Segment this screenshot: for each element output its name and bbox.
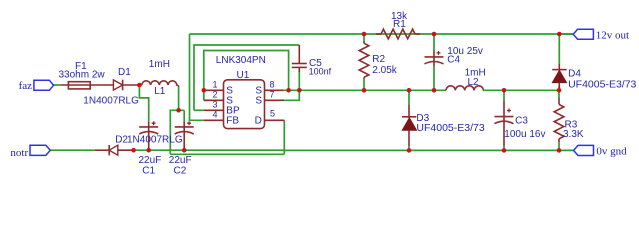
node: R3 bottom on bottom rail — [557, 148, 562, 153]
diode D1 (1N4007RLG) — [113, 80, 122, 90]
svg-text:faz: faz — [19, 80, 33, 92]
wire: C3 top stub — [503, 90, 505, 100]
svg-text:R2: R2 — [372, 54, 385, 65]
node: C3 bottom on bottom rail — [502, 148, 507, 153]
svg-text:1: 1 — [213, 80, 218, 90]
svg-text:33ohm 2w: 33ohm 2w — [59, 70, 106, 81]
wire: pin2 stub link — [204, 99, 208, 101]
wire: D4 bottom / R3 top joint — [558, 86, 560, 98]
pin 7 stub — [265, 99, 285, 101]
node: R2 bottom on source rail — [362, 88, 367, 93]
svg-text:D1: D1 — [118, 67, 131, 78]
wire: C4 top stub — [433, 34, 435, 51]
wire: mid source rail — [284, 89, 447, 91]
svg-text:C3: C3 — [515, 115, 528, 126]
svg-text:7: 7 — [270, 90, 275, 100]
wire: D3 top stub — [408, 90, 410, 105]
node: C4 bottom on source rail — [432, 88, 437, 93]
svg-text:R1: R1 — [393, 19, 406, 30]
connector notr — [30, 145, 50, 155]
wire: D3 bottom stub — [408, 146, 410, 150]
wire: faz input stub — [54, 84, 62, 86]
svg-text:U1: U1 — [237, 70, 250, 81]
capacitor C3 100u 16v — [503, 100, 505, 146]
capacitor C5 100nf — [298, 45, 300, 64]
wire: 12v out stub — [559, 33, 573, 35]
node: source loop right — [286, 88, 291, 93]
svg-text:5: 5 — [270, 109, 275, 119]
pin 2 stub — [204, 99, 224, 101]
op IC U1 LNK304PN body — [224, 80, 265, 129]
pin 4 stub — [204, 119, 224, 121]
node: C3 top on output rail — [502, 88, 507, 93]
fuse F1 body — [61, 84, 113, 86]
svg-text:2: 2 — [213, 90, 218, 100]
wire: drain lower horizontal — [170, 153, 284, 155]
node: pin 1 source tie — [202, 88, 207, 93]
wire: mid rail after L2 — [483, 89, 559, 91]
pin 8 stub — [265, 89, 284, 91]
node: C2 bottom on bottom rail — [182, 148, 187, 153]
svg-text:3: 3 — [213, 100, 218, 110]
wire: R3 bottom stub — [558, 142, 560, 150]
wire: source loop (rect 3) over IC — [204, 51, 289, 101]
node: D1-L1 junction — [137, 83, 142, 88]
wire: top FB rail — [190, 33, 574, 35]
svg-text:1N4007RLG: 1N4007RLG — [127, 135, 183, 146]
svg-text:1mH: 1mH — [149, 59, 170, 70]
pin 3 stub — [204, 109, 224, 111]
wire: FB rail left vertical down to pin 4 — [190, 34, 204, 120]
node: D3 top on source rail — [407, 88, 412, 93]
svg-text:C1: C1 — [142, 166, 155, 177]
svg-text:2.05k: 2.05k — [372, 65, 397, 76]
svg-text:100nf: 100nf — [309, 67, 332, 77]
svg-text:1N4007RLG: 1N4007RLG — [83, 95, 139, 106]
connector 0v gnd — [574, 145, 594, 155]
pin 5 stub — [265, 119, 285, 121]
svg-text:22uF: 22uF — [169, 155, 192, 166]
svg-text:LNK304PN: LNK304PN — [216, 55, 266, 66]
wire: L1 output riser — [178, 87, 180, 111]
node: C4 top on FB rail — [432, 32, 437, 37]
connector 12v out — [573, 29, 593, 39]
svg-text:L1: L1 — [154, 86, 166, 97]
wire: R2 bottom stub — [363, 79, 365, 90]
pin 1 stub — [204, 89, 224, 91]
wire: C2 top stub — [183, 110, 185, 122]
node: L1 out / C2 / drain net — [176, 108, 181, 113]
resistor R2 2.05k — [363, 41, 365, 43]
svg-text:UF4005-E3/73: UF4005-E3/73 — [416, 122, 484, 134]
inductor L2 — [446, 86, 483, 90]
wire: bottom rail — [134, 149, 285, 151]
connector faz — [34, 80, 54, 90]
node: C1 bottom on bottom rail — [146, 148, 151, 153]
wire: BP loop into pin 3 — [194, 109, 204, 111]
svg-text:0v gnd: 0v gnd — [596, 145, 627, 157]
svg-text:4: 4 — [213, 110, 218, 120]
wire: R2 top stub — [363, 34, 365, 41]
resistor R1 13k — [376, 33, 381, 35]
svg-text:C2: C2 — [174, 166, 187, 177]
wire: notr to D2 — [50, 149, 94, 151]
node: C5 bottom on source rail — [297, 88, 302, 93]
node: R2 top on FB rail — [362, 32, 367, 37]
capacitor C1 22uF — [148, 122, 150, 150]
diode D3 UF4005-E3/73 — [408, 105, 410, 118]
svg-text:notr: notr — [10, 147, 28, 159]
svg-text:C4: C4 — [447, 55, 460, 66]
wire: C5 bottom stub — [298, 70, 300, 90]
wire: D1 node jog to C1 — [139, 85, 148, 122]
wire: bottom rail right section to 0v gnd — [284, 149, 574, 151]
wire: BP loop top (rect 2) — [194, 45, 299, 110]
node: D3 bottom on bottom rail — [407, 148, 412, 153]
wire: C3 bottom stub — [503, 146, 505, 150]
svg-text:D: D — [255, 115, 262, 126]
inductor L1 — [142, 81, 179, 87]
node: D4/R3 joint — [557, 88, 562, 93]
wire: D4 top stub — [558, 34, 560, 63]
svg-text:22uF: 22uF — [139, 155, 162, 166]
svg-text:UF4005-E3/73: UF4005-E3/73 — [568, 79, 636, 91]
node: D4 top on FB rail — [557, 32, 562, 37]
diode D2 (1N4007RLG) — [94, 149, 109, 151]
svg-text:L2: L2 — [468, 77, 480, 88]
svg-text:12v out: 12v out — [596, 30, 629, 42]
capacitor C4 10u 25v — [433, 51, 435, 67]
diode D4 UF4005-E3/73 — [558, 63, 560, 70]
svg-text:8: 8 — [270, 80, 275, 90]
capacitor C2 22uF — [183, 122, 185, 150]
node: D2 cathode on bottom rail — [131, 148, 136, 153]
wire: C4 bottom stub — [433, 67, 435, 91]
resistor R3 3.3K — [558, 98, 560, 104]
wire: pin 5 drain drop — [283, 120, 285, 154]
wire: drain riser to C2 node — [170, 110, 184, 154]
wire: pin 7 riser to source rail — [284, 90, 299, 100]
svg-text:3.3K: 3.3K — [563, 129, 584, 140]
svg-text:FB: FB — [226, 115, 239, 126]
svg-text:S: S — [255, 96, 262, 107]
svg-text:100u 16v: 100u 16v — [504, 129, 545, 140]
